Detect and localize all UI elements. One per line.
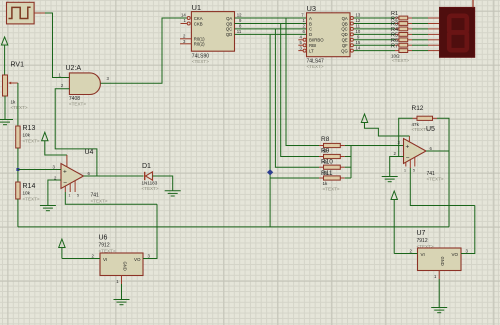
resistor R3 — [391, 22, 408, 31]
diode D1 — [142, 163, 159, 191]
wire R12 right / U5 output node — [437, 118, 449, 227]
svg-text:+: + — [406, 143, 410, 150]
svg-text:R12: R12 — [412, 105, 424, 112]
svg-text:1: 1 — [184, 18, 187, 23]
wire clock to gate pin1 — [34, 12, 45, 14]
svg-text:R13: R13 — [23, 125, 36, 132]
svg-text:QE: QE — [342, 38, 348, 43]
wire QB to U3 B — [235, 23, 307, 25]
svg-text:R10: R10 — [321, 159, 333, 166]
svg-text:QA: QA — [226, 16, 232, 21]
svg-text:9: 9 — [239, 18, 242, 23]
svg-text:A: A — [309, 16, 312, 21]
svg-text:11: 11 — [237, 29, 242, 34]
svg-text:R9: R9 — [321, 148, 330, 155]
svg-text:9: 9 — [357, 35, 360, 40]
svg-text:QC: QC — [341, 27, 347, 32]
svg-text:U2:A: U2:A — [66, 65, 82, 72]
resistor R6 — [391, 38, 408, 47]
ground (RV1) — [0, 120, 13, 125]
wire QA drop to R8 — [286, 18, 319, 146]
ground (U6) — [114, 300, 130, 305]
resistor R8 — [319, 136, 345, 154]
svg-text:1k: 1k — [11, 100, 17, 105]
pack lead stubs — [395, 18, 412, 51]
svg-text:QC: QC — [226, 27, 232, 32]
op-amp U5 — [394, 126, 444, 182]
ground (D1) — [165, 191, 181, 196]
svg-text:1k: 1k — [323, 181, 329, 186]
display pin stubs — [428, 18, 440, 51]
svg-text:RV1: RV1 — [11, 62, 25, 69]
svg-text:1: 1 — [59, 72, 62, 77]
svg-text:2: 2 — [394, 151, 397, 156]
resistor R11 — [319, 170, 345, 192]
wire negative rail — [18, 226, 449, 228]
wire U7 GND to ground — [438, 279, 440, 308]
wire QA to U3 A — [235, 17, 307, 19]
svg-text:1: 1 — [303, 18, 306, 23]
wire U5 output — [426, 150, 449, 152]
wire QD drop to R11 and rail — [269, 34, 271, 227]
svg-text:QG: QG — [341, 48, 348, 53]
svg-text:13: 13 — [356, 13, 361, 18]
svg-text:QD: QD — [341, 32, 347, 37]
svg-text:QF: QF — [342, 43, 348, 48]
svg-text:−: − — [63, 179, 67, 186]
resistor R1 — [391, 11, 408, 20]
svg-text:11: 11 — [356, 24, 361, 29]
resistor R13 — [16, 125, 40, 148]
svg-text:1: 1 — [69, 194, 71, 198]
svg-text:2: 2 — [61, 83, 64, 88]
svg-text:<TEXT>: <TEXT> — [69, 102, 86, 107]
svg-text:R7: R7 — [391, 43, 398, 49]
svg-text:<TEXT>: <TEXT> — [392, 58, 409, 63]
svg-text:3: 3 — [107, 76, 110, 81]
svg-text:2: 2 — [410, 249, 413, 254]
7-segment display — [440, 0, 475, 57]
svg-text:1N1183: 1N1183 — [142, 181, 158, 186]
wire QB drop to R9 — [281, 24, 319, 157]
wire gate pin2 from U4 output (feedback) — [55, 89, 97, 176]
resistor R4 — [391, 27, 408, 36]
resistor R10 — [319, 159, 345, 176]
clock source CLK1 — [7, 2, 35, 24]
wire D1 to ground — [153, 176, 173, 191]
svg-text:1: 1 — [434, 274, 437, 279]
svg-text:8: 8 — [239, 24, 242, 29]
wire QD to U3 D — [235, 33, 307, 35]
svg-text:RBI: RBI — [309, 43, 316, 48]
wire gate output to U1 CKA — [101, 18, 187, 83]
svg-text:12: 12 — [237, 13, 242, 18]
wire U6 GND to ground — [121, 284, 123, 300]
op-amp U4 — [53, 149, 108, 204]
svg-text:D: D — [309, 32, 312, 37]
wire R14 bottom to rail — [17, 199, 19, 227]
power terminal (U6 VI) — [59, 239, 65, 259]
svg-text:BI/RBO: BI/RBO — [309, 38, 324, 43]
svg-text:3: 3 — [183, 39, 186, 44]
resistor R14 — [16, 182, 40, 202]
power terminal (U5 V+) — [361, 114, 409, 136]
svg-text:12: 12 — [356, 18, 361, 23]
wire RV1 wiper down to R13 — [17, 83, 19, 126]
svg-text:R11: R11 — [321, 170, 333, 177]
svg-text:U1: U1 — [192, 3, 202, 12]
svg-text:U6: U6 — [99, 235, 108, 242]
svg-text:QB: QB — [226, 21, 232, 26]
wire U6 VI — [62, 258, 100, 260]
svg-text:6: 6 — [430, 146, 433, 151]
svg-text:2: 2 — [92, 254, 95, 259]
resistor R12 — [412, 105, 438, 132]
svg-text:<TEXT>: <TEXT> — [307, 64, 324, 69]
svg-text:<TEXT>: <TEXT> — [142, 186, 159, 191]
svg-text:5: 5 — [77, 194, 79, 198]
potentiometer RV1 — [3, 62, 28, 111]
svg-text:10k: 10k — [23, 191, 31, 196]
svg-text:U3: U3 — [307, 4, 317, 13]
resistor R9 — [319, 148, 345, 165]
svg-text:VI: VI — [421, 252, 425, 257]
wire QC to U3 C — [235, 28, 307, 30]
svg-text:4: 4 — [300, 35, 303, 40]
wires pack to display pins — [412, 18, 428, 51]
resistor R7 — [391, 43, 409, 63]
svg-text:<TEXT>: <TEXT> — [23, 139, 40, 144]
svg-text:1: 1 — [404, 169, 406, 173]
power terminal (U4 V+) — [42, 132, 67, 155]
wire U7 VI — [394, 253, 417, 255]
svg-text:<TEXT>: <TEXT> — [23, 197, 40, 202]
svg-text:5: 5 — [413, 169, 415, 173]
svg-text:VO: VO — [451, 252, 458, 257]
power terminal +V (RV1 top) — [1, 37, 7, 75]
svg-text:3: 3 — [466, 249, 469, 254]
svg-text:LT: LT — [309, 48, 314, 53]
IC U3 74LS47 — [298, 4, 361, 69]
resistor R5 — [391, 33, 408, 42]
wire U5 V- to supply line — [410, 168, 475, 206]
svg-text:6: 6 — [88, 171, 91, 176]
svg-text:R8: R8 — [321, 136, 330, 143]
wire R12 left to U5 pin2 — [399, 118, 413, 156]
svg-text:VO: VO — [134, 257, 141, 262]
svg-text:CKA: CKA — [194, 16, 203, 21]
svg-text:5: 5 — [300, 40, 303, 45]
power terminal (rail, above U7) — [391, 191, 397, 254]
svg-text:QD: QD — [226, 32, 232, 37]
wire U6 VO up to U4 V- line — [143, 204, 157, 258]
svg-text:3: 3 — [398, 140, 401, 145]
wire RV1 bottom to ground — [4, 96, 6, 120]
svg-text:D1: D1 — [142, 163, 151, 170]
svg-text:10k: 10k — [23, 133, 31, 138]
regulator U6 — [92, 235, 151, 285]
svg-text:C: C — [309, 27, 312, 32]
svg-text:3: 3 — [53, 165, 56, 170]
wire summing bus to U5 — [345, 146, 404, 179]
svg-text:<TEXT>: <TEXT> — [323, 187, 340, 192]
junction node dot — [267, 169, 273, 175]
wire QC drop to R10 — [275, 29, 319, 167]
svg-text:QA: QA — [342, 16, 348, 21]
ground (U7) — [431, 308, 447, 313]
svg-text:U5: U5 — [426, 126, 435, 133]
svg-text:<TEXT>: <TEXT> — [192, 59, 209, 64]
svg-text:CKB: CKB — [194, 21, 203, 26]
wire U4 V- supply line — [65, 192, 157, 204]
ground (U4 pin2) — [40, 206, 56, 211]
svg-text:15: 15 — [356, 40, 361, 45]
svg-text:3: 3 — [300, 45, 303, 50]
svg-text:VI: VI — [103, 257, 107, 262]
svg-text:2: 2 — [303, 24, 306, 29]
svg-text:R14: R14 — [23, 183, 36, 190]
wires U3 outputs to resistor pack — [354, 18, 395, 51]
resistor R2 — [391, 16, 408, 25]
wire U5 pin2 to ground — [390, 157, 404, 177]
svg-text:U7: U7 — [417, 230, 426, 237]
svg-text:B: B — [309, 21, 312, 26]
svg-text:GND: GND — [440, 257, 445, 266]
wire U4 output to D1 — [84, 175, 144, 177]
IC U1 74LS90 — [180, 3, 242, 64]
svg-text:3: 3 — [148, 254, 151, 259]
svg-text:<TEXT>: <TEXT> — [91, 199, 108, 204]
svg-text:14: 14 — [356, 45, 361, 50]
svg-text:6: 6 — [303, 29, 306, 34]
svg-text:R0(2): R0(2) — [194, 42, 205, 47]
wire U4 pin2 to ground — [48, 180, 61, 206]
svg-text:7: 7 — [301, 13, 304, 18]
node junction R13/R14 — [16, 168, 19, 171]
svg-text:U4: U4 — [85, 149, 94, 156]
svg-text:<TEXT>: <TEXT> — [11, 105, 28, 110]
svg-text:GND: GND — [123, 262, 128, 271]
svg-text:−: − — [406, 154, 410, 161]
svg-text:QB: QB — [342, 21, 348, 26]
wire U7 VO up to supply line — [461, 206, 475, 254]
and gate U2:A — [59, 65, 110, 107]
svg-text:10: 10 — [356, 29, 361, 34]
regulator U7 — [410, 230, 469, 279]
svg-text:<TEXT>: <TEXT> — [427, 177, 444, 182]
svg-text:1: 1 — [116, 279, 119, 284]
wire R13 to R14 — [17, 148, 19, 182]
wire divider to U4 pin3 — [18, 169, 61, 171]
svg-text:+: + — [63, 168, 67, 175]
ground (U5 pin2) — [382, 177, 398, 182]
svg-text:14: 14 — [181, 13, 186, 18]
